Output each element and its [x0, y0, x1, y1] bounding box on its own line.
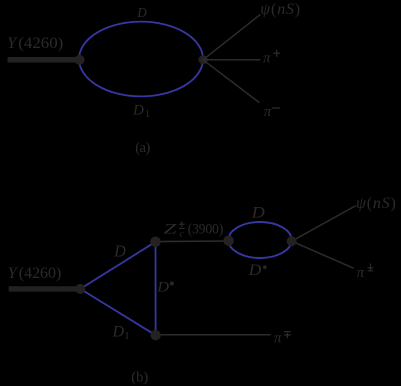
svg-text:Y(4260): Y(4260): [7, 35, 63, 52]
svg-text:D: D: [251, 204, 266, 221]
svg-text:ψ(nS): ψ(nS): [260, 1, 301, 18]
svg-text:Y(4260): Y(4260): [8, 265, 62, 282]
svg-text:π: π: [263, 51, 271, 67]
svg-text:(b): (b): [131, 370, 148, 386]
svg-text:D: D: [136, 6, 146, 21]
svg-text:D: D: [156, 280, 169, 296]
svg-text:D: D: [113, 242, 126, 261]
svg-text:D: D: [112, 323, 125, 340]
svg-text:Z: Z: [163, 222, 177, 238]
svg-text:π: π: [264, 104, 272, 120]
svg-text:D: D: [132, 102, 144, 118]
svg-text:π: π: [274, 331, 282, 347]
svg-text:(3900): (3900): [188, 222, 224, 238]
svg-text:1: 1: [124, 330, 130, 342]
svg-text:1: 1: [145, 109, 150, 120]
svg-text:D: D: [248, 262, 262, 279]
svg-text:ψ(nS): ψ(nS): [356, 195, 397, 212]
svg-text:(a): (a): [135, 140, 150, 156]
svg-text:π: π: [357, 265, 365, 281]
